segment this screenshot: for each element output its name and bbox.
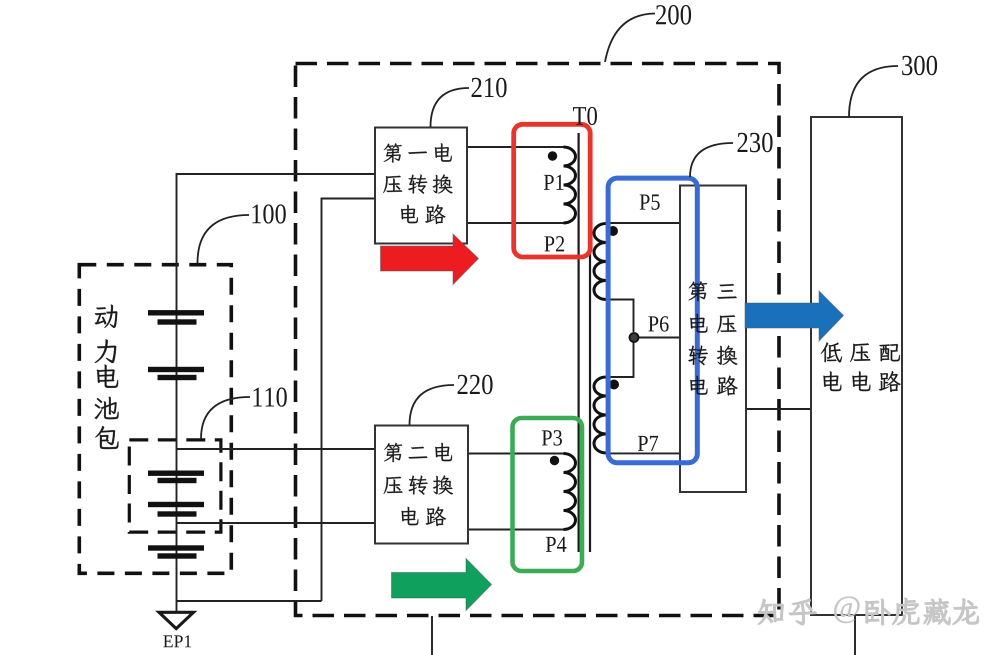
block 220 second voltage conversion circuit [375, 426, 468, 544]
label 220 [458, 375, 493, 395]
label 300 [902, 56, 937, 76]
wire battery tap lower to box 220 [177, 522, 376, 524]
label P7 [638, 436, 658, 451]
wire battery main vertical [176, 310, 178, 612]
label EP1 [163, 635, 191, 647]
phase dot winding P3 [550, 456, 559, 465]
block 230 third voltage conversion circuit [680, 186, 746, 493]
battery cell B2 [148, 367, 204, 380]
leader line 210 [431, 88, 470, 127]
primary winding P3-P4 [564, 454, 576, 530]
wire box 220 to winding P3 top [468, 453, 564, 455]
label P4 [546, 537, 567, 552]
label P5 [640, 195, 660, 210]
label P2 [544, 236, 564, 251]
battery cell B4 [148, 502, 204, 517]
wire box 220 to winding P3 bottom [468, 529, 564, 531]
wire box 210 lower input loop [322, 199, 376, 602]
block 210 first voltage conversion circuit [375, 128, 467, 244]
wire battery bottom return [177, 600, 322, 602]
wire box 210 to winding P1 bottom [467, 222, 564, 224]
block 300 low-voltage distribution circuit [811, 117, 902, 615]
primary winding P1-P2 [564, 147, 576, 223]
label P3 [542, 430, 562, 445]
label 210 [472, 78, 507, 98]
dashed box 110 (battery sub-module) [129, 440, 221, 532]
wire node P5 to box 230 [606, 222, 680, 224]
secondary winding P6-P7 [594, 377, 606, 453]
label 230 [738, 133, 773, 153]
text in block 300 [821, 343, 901, 393]
green flow arrow [392, 559, 492, 611]
phase dot winding P5 [608, 226, 618, 236]
leader line 110 [201, 397, 250, 439]
label 200 [656, 5, 691, 25]
label 110 [253, 388, 286, 407]
wire stub below box 200 [431, 616, 433, 655]
blue highlight box around P5-P7 windings [608, 178, 697, 463]
battery cell B3 [148, 471, 204, 484]
label P6 [648, 316, 668, 331]
leader line 220 [410, 385, 455, 425]
wire stub below box 300 [854, 615, 856, 655]
ground EP1 symbol [159, 612, 194, 628]
text in block 230 [688, 281, 737, 395]
text in block 220 [384, 443, 453, 526]
phase dot winding P7 [609, 380, 619, 390]
dashed box 200 (converter assembly) [296, 64, 780, 616]
leader line 200 [605, 14, 655, 63]
wire box 230 to box 300 [746, 408, 811, 410]
secondary winding P5-P6 [594, 224, 606, 300]
wire node P7 to box 230 [606, 452, 680, 454]
green highlight box around P3-P4 winding [513, 418, 583, 571]
leader line 100 [198, 215, 250, 263]
label P1 [544, 175, 564, 190]
junction node P6 [630, 333, 639, 342]
wire node P6 to secondary winding lower [606, 338, 634, 378]
leader line 300 [849, 66, 898, 117]
watermark zhihu [758, 597, 978, 626]
wire battery positive to box 210 [177, 174, 376, 310]
battery cell B5 [148, 545, 204, 558]
phase dot winding P1 [548, 151, 557, 160]
label 100 [252, 204, 285, 223]
label T0 [573, 107, 597, 125]
blue flow arrow [745, 291, 844, 341]
battery cell B1 [148, 310, 204, 325]
dashed box 100 (power battery pack) [79, 265, 231, 574]
wire secondary winding upper bottom to node P6 [606, 300, 634, 333]
wire box 210 to winding P1 top [467, 146, 564, 148]
text in block 210 [383, 143, 452, 224]
wire battery tap upper to box 220 [177, 448, 376, 450]
wire node P6 to box 230 [634, 337, 680, 339]
transformer core line right [589, 133, 591, 552]
red flow arrow [381, 234, 479, 285]
leader line 230 [690, 143, 733, 177]
transformer core line left [577, 133, 579, 552]
red highlight box around P1-P2 winding [514, 124, 591, 257]
text power battery pack label [95, 305, 119, 449]
